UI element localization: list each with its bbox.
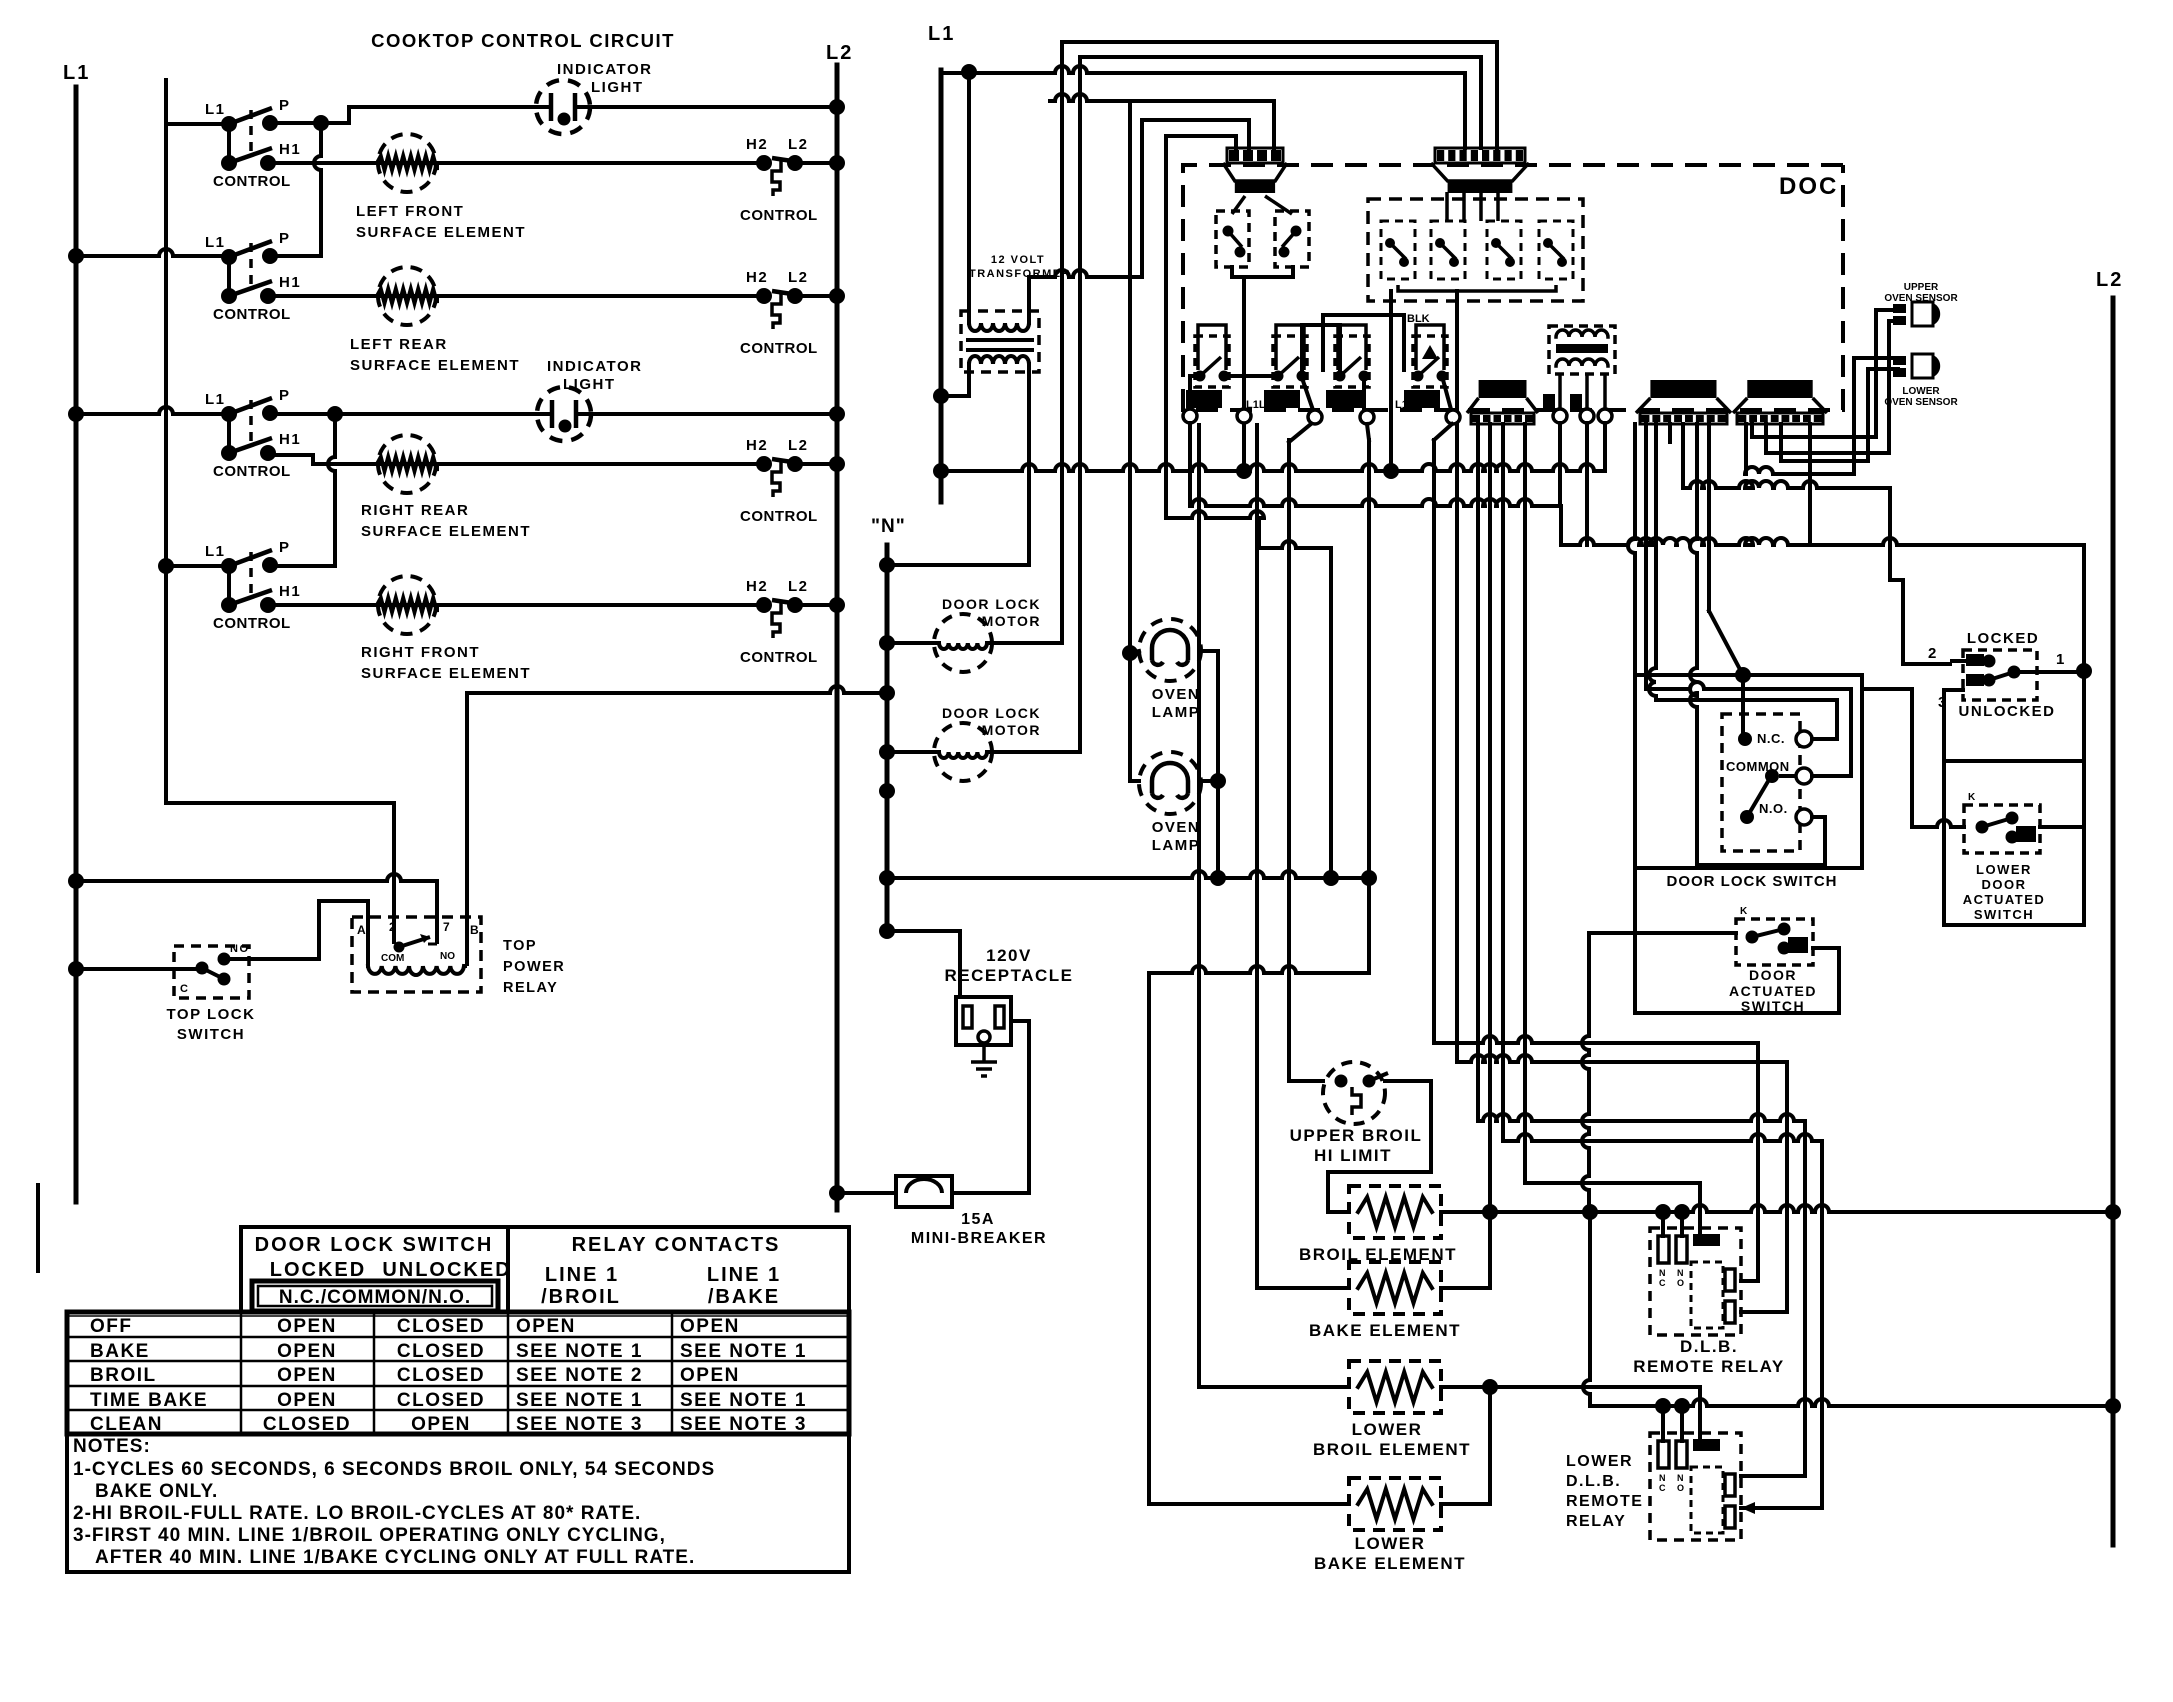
label locked pin 2 xyxy=(1928,645,1938,662)
wire row3 P jog down to row4 xyxy=(328,414,335,566)
table header relay contacts box xyxy=(508,1227,849,1312)
oven lamp LP1 xyxy=(1139,619,1201,681)
svg-text:COM: COM xyxy=(381,953,404,964)
svg-text:H2: H2 xyxy=(746,136,768,153)
relay K9 xyxy=(1264,325,1308,408)
svg-text:RIGHT FRONT: RIGHT FRONT xyxy=(361,644,480,661)
node L1-second row4 xyxy=(158,558,174,574)
door actuated switch outer box xyxy=(1635,868,1839,1013)
svg-text:RIGHT REAR: RIGHT REAR xyxy=(361,502,469,519)
svg-text:BAKE: BAKE xyxy=(90,1341,150,1362)
node N bus tap xyxy=(879,870,895,886)
svg-text:LIGHT: LIGHT xyxy=(591,79,644,96)
svg-text:P: P xyxy=(279,97,291,114)
svg-text:INDICATOR: INDICATOR xyxy=(557,61,652,78)
node L2 left xyxy=(826,42,853,64)
node lamp1 left junction xyxy=(1122,645,1138,661)
svg-text:N: N xyxy=(1677,1268,1684,1278)
svg-text:H1: H1 xyxy=(279,274,301,291)
svg-text:LOWER: LOWER xyxy=(1352,1420,1423,1439)
wire row3 L2 link xyxy=(795,462,837,466)
wire N to secondary xyxy=(887,563,1029,567)
svg-text:N: N xyxy=(1659,1268,1666,1278)
wire lamp2 left lead xyxy=(1130,779,1139,783)
table header text LINE 1 /BAKE xyxy=(707,1264,781,1308)
connector P5 (upper small) xyxy=(1223,148,1287,193)
svg-text:C: C xyxy=(1659,1278,1666,1288)
relay K10 xyxy=(1326,325,1370,408)
svg-text:K: K xyxy=(1968,792,1976,803)
label LEFT REAR SURFACE ELEMENT xyxy=(350,336,520,374)
svg-text:OPEN: OPEN xyxy=(277,1390,337,1411)
svg-text:NOTES:: NOTES: xyxy=(73,1436,151,1457)
switch H2/L2 control row1 xyxy=(740,136,818,224)
label DOOR LOCK MOTOR 1 xyxy=(942,596,1041,629)
locked-unlocked switch xyxy=(1950,650,2084,700)
wire row2 P link xyxy=(270,254,321,258)
svg-text:BROIL: BROIL xyxy=(90,1365,157,1386)
wire transformer secondary right lead xyxy=(887,364,1029,565)
svg-text:2: 2 xyxy=(389,920,397,934)
table header text RELAY CONTACTS xyxy=(572,1234,781,1256)
oven lamp LP2 xyxy=(1139,752,1201,814)
node L1 row2 xyxy=(68,248,84,264)
svg-text:LIGHT: LIGHT xyxy=(563,376,616,393)
svg-text:LINE 1: LINE 1 xyxy=(545,1264,619,1286)
svg-text:RECEPTACLE: RECEPTACLE xyxy=(945,966,1074,985)
svg-text:BLK: BLK xyxy=(1407,313,1430,325)
svg-text:"N": "N" xyxy=(871,516,906,537)
node feeder bus tap xyxy=(1361,870,1377,886)
svg-text:L1: L1 xyxy=(205,543,226,560)
wire DLS COMMON out xyxy=(1646,424,1851,776)
node L1 lock switch feed xyxy=(68,961,84,977)
wire K9 right contact drop xyxy=(1302,378,1313,410)
svg-text:L2: L2 xyxy=(788,578,809,595)
indicator light IL2 xyxy=(537,387,591,441)
svg-text:OVEN: OVEN xyxy=(1152,686,1201,703)
svg-text:/BAKE: /BAKE xyxy=(708,1286,780,1308)
svg-text:SURFACE ELEMENT: SURFACE ELEMENT xyxy=(361,523,531,540)
title COOKTOP CONTROL CIRCUIT xyxy=(371,30,675,51)
wire feeder bake xyxy=(1257,425,1349,1288)
wire DAS left lead xyxy=(1589,931,1736,935)
svg-text:CLOSED: CLOSED xyxy=(397,1390,485,1411)
wire DLS NO out xyxy=(1690,424,1825,865)
svg-text:LOWER: LOWER xyxy=(1566,1453,1633,1470)
svg-text:LOWER: LOWER xyxy=(1355,1534,1426,1553)
svg-text:SURFACE ELEMENT: SURFACE ELEMENT xyxy=(356,224,526,241)
label 15A MINI-BREAKER xyxy=(911,1211,1047,1247)
wire row2 H1 element line xyxy=(270,294,764,298)
svg-text:BAKE ONLY.: BAKE ONLY. xyxy=(95,1481,218,1502)
wire row3 L1 feed xyxy=(76,407,229,414)
relay group K4-K7 (conn2) xyxy=(1368,192,1583,301)
pin circle K9b xyxy=(1308,410,1322,424)
svg-text:SURFACE ELEMENT: SURFACE ELEMENT xyxy=(361,665,531,682)
wire feeder hi-limit xyxy=(1289,440,1323,1081)
heating element LEFT FRONT xyxy=(377,134,437,192)
svg-text:C: C xyxy=(180,983,189,995)
wire DLB1 NO stub xyxy=(1680,1212,1684,1236)
svg-text:COMMON: COMMON xyxy=(1726,759,1790,774)
svg-text:P: P xyxy=(279,230,291,247)
node DLB1 NO tap xyxy=(1674,1204,1690,1220)
svg-text:LOCKED: LOCKED xyxy=(270,1259,366,1281)
node L2 row2 xyxy=(829,288,845,304)
wire relay B to N xyxy=(467,686,887,917)
svg-text:UNLOCKED: UNLOCKED xyxy=(382,1259,511,1281)
wire row1 P to indicator xyxy=(270,107,536,123)
svg-text:1-CYCLES 60 SECONDS, 6 SECONDS: 1-CYCLES 60 SECONDS, 6 SECONDS BROIL ONL… xyxy=(73,1459,715,1480)
wire row4 L1 feed xyxy=(166,564,229,568)
svg-text:H2: H2 xyxy=(746,578,768,595)
pin circle RY1-3 xyxy=(1598,409,1612,423)
node L2 row4 xyxy=(829,597,845,613)
label indicator light 1 xyxy=(557,61,652,96)
wire motor2 left lead xyxy=(887,750,934,754)
bake element xyxy=(1349,1262,1441,1314)
lower door actuated switch outer box xyxy=(1944,761,2084,925)
svg-text:H1: H1 xyxy=(279,431,301,448)
node bus878 staircase tap xyxy=(1323,870,1339,886)
wire P1 diagonal to DLS xyxy=(1709,424,1743,675)
switch S1 left-front control xyxy=(205,97,301,190)
wire relay K8-K9 link xyxy=(1224,374,1278,378)
wire hi-limit to broil element xyxy=(1328,1081,1431,1212)
node N motor1 xyxy=(879,635,895,651)
svg-text:REMOTE: REMOTE xyxy=(1566,1493,1643,1510)
wire L1 to relay pin7 xyxy=(76,874,437,921)
svg-text:OPEN: OPEN xyxy=(516,1316,576,1337)
switch S3 right-rear control xyxy=(205,387,301,480)
wire feeder main elements xyxy=(1149,440,1369,1504)
node L1 middle xyxy=(928,23,955,45)
svg-text:CONTROL: CONTROL xyxy=(740,649,818,666)
switch H2/L2 control row2 xyxy=(740,269,818,357)
label LOWER DOOR ACTUATED SWITCH xyxy=(1963,862,2046,922)
lower DLB remote relay xyxy=(1650,1433,1741,1540)
switch H2/L2 control row3 xyxy=(740,437,818,525)
svg-text:BAKE ELEMENT: BAKE ELEMENT xyxy=(1309,1321,1461,1340)
svg-text:D.L.B.: D.L.B. xyxy=(1680,1337,1738,1356)
wire L2 to breaker xyxy=(837,1191,896,1195)
label RIGHT REAR SURFACE ELEMENT xyxy=(361,502,531,540)
svg-text:CONTROL: CONTROL xyxy=(213,615,291,632)
wire top lock switch to relay coil xyxy=(224,901,368,966)
svg-text:/BROIL: /BROIL xyxy=(541,1286,621,1308)
wire lower broil-bake link xyxy=(1441,1387,1490,1504)
label UPPER OVEN SENSOR xyxy=(1884,282,1958,304)
lower door actuated switch xyxy=(1964,792,2040,853)
svg-text:H2: H2 xyxy=(746,269,768,286)
table header text LOCKED/UNLOCKED xyxy=(270,1259,512,1281)
receptacle 120V xyxy=(956,997,1011,1045)
node L2 right xyxy=(2096,269,2123,291)
wire row1 H1 element line xyxy=(270,161,764,165)
relay K11 (BLK) xyxy=(1404,313,1448,408)
wire P3 to broil junction xyxy=(1488,424,1492,1212)
lower broil element xyxy=(1349,1361,1441,1413)
svg-text:OPEN: OPEN xyxy=(411,1414,471,1435)
label LOWER BAKE ELEMENT xyxy=(1314,1534,1466,1573)
wire conn1 riser outer xyxy=(1050,94,1274,148)
wire L1 middle rail xyxy=(939,70,944,502)
broil element xyxy=(1349,1186,1441,1238)
wire P3 to DLB2 coil b xyxy=(1503,424,1822,1508)
svg-text:DOOR: DOOR xyxy=(1982,877,2027,892)
switch H2/L2 control row4 xyxy=(740,578,818,666)
svg-text:120V: 120V xyxy=(986,946,1032,965)
label BAKE ELEMENT xyxy=(1309,1321,1461,1340)
relay RY1 (latch transformer) xyxy=(1543,326,1615,409)
wire lamp right bus xyxy=(1201,651,1218,878)
node L1 left xyxy=(63,62,90,84)
wire conn1 lamp feeder xyxy=(1128,101,1132,779)
svg-text:OFF: OFF xyxy=(90,1316,133,1337)
svg-text:INDICATOR: INDICATOR xyxy=(547,358,642,375)
node DLS top junction xyxy=(1735,667,1751,683)
wire DLS NC drop xyxy=(1741,675,1745,739)
table body grid xyxy=(67,1312,849,1434)
wire row3 P to indicator2 xyxy=(270,412,537,416)
svg-text:NO: NO xyxy=(230,943,250,955)
svg-text:ACTUATED: ACTUATED xyxy=(1729,983,1817,999)
label LOCKED xyxy=(1967,630,2039,647)
label DOOR ACTUATED SWITCH xyxy=(1729,967,1817,1014)
label 120V RECEPTACLE xyxy=(945,946,1074,985)
table row CLEAN xyxy=(90,1414,807,1435)
wire K10 diagonal to element feeder xyxy=(1367,424,1369,440)
wire broil right lead xyxy=(1441,1210,1490,1214)
svg-text:LEFT FRONT: LEFT FRONT xyxy=(356,203,464,220)
wire motor1 right lead xyxy=(992,641,1058,645)
svg-text:L1L: L1L xyxy=(1395,399,1415,411)
label UNLOCKED xyxy=(1959,703,2056,720)
svg-text:SEE NOTE 2: SEE NOTE 2 xyxy=(516,1365,643,1386)
svg-text:TOP: TOP xyxy=(503,938,537,954)
svg-text:L2: L2 xyxy=(826,42,853,64)
svg-text:L2: L2 xyxy=(788,269,809,286)
label BROIL ELEMENT xyxy=(1299,1245,1457,1264)
wire indicator1 to L2 xyxy=(590,105,837,109)
wire conn1 relays bottom link xyxy=(1232,267,1293,277)
pin circle K11 xyxy=(1446,410,1460,424)
wire K11 right lead drop xyxy=(1442,376,1452,413)
margin mark xyxy=(36,1183,40,1273)
node lamp right bus tap xyxy=(1210,773,1226,789)
label 12 VOLT TRANSFORMER xyxy=(969,254,1071,280)
wire K10-K11 big loop xyxy=(1323,315,1404,370)
wire relay group to bus xyxy=(1389,291,1393,471)
svg-text:SEE NOTE 1: SEE NOTE 1 xyxy=(516,1341,643,1362)
wire row3 H1 element line xyxy=(270,455,764,464)
table notes box xyxy=(67,1434,849,1572)
svg-text:CONTROL: CONTROL xyxy=(740,508,818,525)
svg-text:P: P xyxy=(279,387,291,404)
wire relay K11 to DLB1 coil xyxy=(1434,440,1758,1281)
wire K11 diagonal xyxy=(1434,424,1452,440)
wire feeder lower broil xyxy=(1199,425,1349,1387)
label locked pin 1 xyxy=(2056,651,2066,668)
svg-text:LAMP: LAMP xyxy=(1152,837,1201,854)
wire locked pin3 down xyxy=(1944,690,1963,761)
svg-text:H1: H1 xyxy=(279,141,301,158)
svg-text:12 VOLT: 12 VOLT xyxy=(991,254,1045,266)
wire transformer primary left lead xyxy=(967,72,971,323)
svg-text:OVEN: OVEN xyxy=(1152,819,1201,836)
svg-text:3-FIRST 40 MIN. LINE 1/BROIL O: 3-FIRST 40 MIN. LINE 1/BROIL OPERATING O… xyxy=(73,1525,666,1546)
svg-text:SEE NOTE 1: SEE NOTE 1 xyxy=(680,1390,807,1411)
svg-text:MOTOR: MOTOR xyxy=(982,613,1041,629)
svg-text:LOCKED: LOCKED xyxy=(1967,630,2039,647)
wire K9 contact drop xyxy=(1242,376,1246,413)
wire bus relay K8 distribution xyxy=(1190,423,2084,545)
svg-text:ACTUATED: ACTUATED xyxy=(1963,892,2046,907)
svg-text:2-HI BROIL-FULL RATE. LO BROIL: 2-HI BROIL-FULL RATE. LO BROIL-CYCLES AT… xyxy=(73,1503,641,1524)
relay K2 (conn1 left) xyxy=(1216,196,1249,267)
svg-text:UPPER BROIL: UPPER BROIL xyxy=(1290,1126,1423,1145)
wire row4 P link xyxy=(270,564,335,568)
lower oven sensor xyxy=(1893,354,1940,378)
svg-text:CONTROL: CONTROL xyxy=(213,173,291,190)
svg-text:L2: L2 xyxy=(788,437,809,454)
svg-text:LOWER: LOWER xyxy=(1976,862,2032,877)
heating element LEFT REAR xyxy=(377,267,437,325)
node DLB2 NO tap xyxy=(1674,1398,1690,1414)
label UPPER BROIL HI LIMIT xyxy=(1290,1126,1423,1165)
svg-text:LINE 1: LINE 1 xyxy=(707,1264,781,1286)
wire L1 left rail xyxy=(74,87,79,1202)
svg-text:OPEN: OPEN xyxy=(680,1365,740,1386)
switch S2 left-rear control xyxy=(205,230,301,323)
table row TIME BAKE xyxy=(90,1390,807,1411)
svg-text:CLOSED: CLOSED xyxy=(397,1365,485,1386)
svg-text:CONTROL: CONTROL xyxy=(213,463,291,480)
svg-text:L2: L2 xyxy=(788,136,809,153)
svg-text:REMOTE RELAY: REMOTE RELAY xyxy=(1633,1357,1785,1376)
node bus471 relaygroup tap xyxy=(1383,463,1399,479)
wire L1 second rail xyxy=(166,80,394,921)
svg-text:BROIL ELEMENT: BROIL ELEMENT xyxy=(1313,1440,1471,1459)
DOC control board outline xyxy=(1183,165,1843,410)
wire bundle top1 motor1 to conn2 pin xyxy=(1062,42,1497,148)
svg-text:SEE NOTE 1: SEE NOTE 1 xyxy=(680,1341,807,1362)
node N secondary tap xyxy=(879,557,895,573)
relay K8 (DLB) xyxy=(1186,325,1230,408)
svg-text:NO: NO xyxy=(440,951,455,962)
label DLB REMOTE RELAY xyxy=(1633,1337,1785,1376)
node N relay tap xyxy=(879,685,895,701)
svg-text:O: O xyxy=(1677,1483,1684,1493)
node line1 bus DAS tap xyxy=(1582,1204,1598,1220)
door lock switch xyxy=(1722,714,1812,851)
svg-text:A: A xyxy=(357,923,367,937)
wire motor1 right riser xyxy=(1060,42,1064,643)
wire lamp1 left lead xyxy=(1130,651,1139,653)
label OVEN LAMP 2 xyxy=(1152,819,1201,854)
wire P2 to locked switch line1 xyxy=(1810,424,2084,671)
svg-text:15A: 15A xyxy=(961,1211,995,1228)
wire COM1 feeder xyxy=(1525,424,1700,1234)
wire row4 H1 element line xyxy=(270,603,764,607)
transformer T1 12 volt xyxy=(961,311,1039,372)
door lock motor M2 xyxy=(934,723,992,781)
node L1m bus tap xyxy=(933,463,949,479)
wire N to receptacle xyxy=(887,931,960,997)
node locked switch junction xyxy=(2076,663,2092,679)
svg-text:POWER: POWER xyxy=(503,959,565,975)
node row1 P junction xyxy=(313,115,329,131)
wire P2 sensor nest 3 xyxy=(1745,358,1898,474)
svg-text:RELAY: RELAY xyxy=(503,980,558,996)
wire row1 L2 link xyxy=(795,161,837,165)
node DLB1 NC tap xyxy=(1655,1204,1671,1220)
svg-text:RELAY: RELAY xyxy=(1566,1513,1626,1530)
label indicator light 2 xyxy=(547,358,642,393)
connector P1 xyxy=(1636,380,1731,424)
heating element RIGHT REAR xyxy=(377,435,437,493)
svg-text:SWITCH: SWITCH xyxy=(1974,907,2034,922)
svg-text:OPEN: OPEN xyxy=(277,1341,337,1362)
svg-text:N.C./COMMON/N.O.: N.C./COMMON/N.O. xyxy=(279,1287,471,1308)
switch S4 right-front control xyxy=(205,539,301,632)
label DOOR LOCK SWITCH xyxy=(1667,873,1838,890)
wire bundle top2 motor2 to conn2 pin xyxy=(1080,57,1481,148)
wire conn1 relays to bus xyxy=(1242,277,1246,471)
svg-text:BAKE ELEMENT: BAKE ELEMENT xyxy=(1314,1554,1466,1573)
wire conn1 staircase riser xyxy=(1166,136,1331,878)
node DLB2 NC tap xyxy=(1655,1398,1671,1414)
wire row4 L2 link xyxy=(795,603,837,607)
wire DAS right lead xyxy=(1813,946,1839,950)
wire motor1 left lead xyxy=(887,641,934,645)
wire K10 right lead drop xyxy=(1362,376,1366,413)
svg-text:H1: H1 xyxy=(279,583,301,600)
wire P3 to DLB2 coil a xyxy=(1478,424,1805,1476)
wire row1 P jog down to row2 xyxy=(314,123,321,256)
wire K9b diagonal to hi-limit feeder xyxy=(1289,424,1311,442)
svg-text:L1: L1 xyxy=(205,391,226,408)
svg-text:K: K xyxy=(1740,906,1748,917)
table row BAKE xyxy=(90,1341,807,1362)
node N spare xyxy=(879,783,895,799)
svg-text:MINI-BREAKER: MINI-BREAKER xyxy=(911,1230,1047,1247)
label LOWER DLB REMOTE RELAY xyxy=(1566,1453,1643,1530)
svg-text:DOOR LOCK: DOOR LOCK xyxy=(942,705,1041,721)
wire P1 stub 1670 xyxy=(1668,424,1672,442)
svg-text:L2: L2 xyxy=(2096,269,2123,291)
relay K3 (conn1 right) xyxy=(1265,196,1309,267)
wire transformer primary right lead xyxy=(1029,120,1249,323)
wire DLB2 NC stub xyxy=(1661,1406,1665,1441)
wire L2 right rail xyxy=(2111,298,2116,1545)
svg-text:OPEN: OPEN xyxy=(277,1316,337,1337)
wire RY pin drop a xyxy=(1558,423,1562,506)
wire RY pin drop b xyxy=(1585,423,1589,545)
svg-text:CONTROL: CONTROL xyxy=(740,340,818,357)
svg-text:RELAY CONTACTS: RELAY CONTACTS xyxy=(572,1234,781,1256)
svg-text:7: 7 xyxy=(443,920,451,934)
svg-text:CONTROL: CONTROL xyxy=(213,306,291,323)
node bus878 lamp tap xyxy=(1210,870,1226,886)
svg-text:N.O.: N.O. xyxy=(1759,801,1788,816)
label L1L a xyxy=(1246,399,1266,411)
svg-text:SWITCH: SWITCH xyxy=(177,1026,245,1043)
wire P1 to locked switch 2 xyxy=(1683,424,1950,664)
svg-text:LOWER: LOWER xyxy=(1902,386,1940,397)
wire broil-bake link xyxy=(1441,1212,1490,1288)
